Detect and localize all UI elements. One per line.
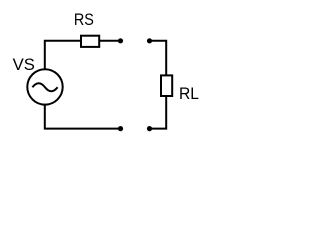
svg-text:RS: RS bbox=[74, 11, 94, 29]
svg-text:RL: RL bbox=[179, 85, 199, 103]
svg-text:VS: VS bbox=[13, 56, 35, 74]
